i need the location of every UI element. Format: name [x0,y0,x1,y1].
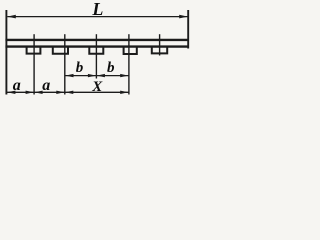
svg-text:L: L [91,0,103,19]
arrowhead L right [179,15,188,19]
arrowhead b1 left [65,74,73,77]
arrowhead L left [7,15,16,19]
arrowhead a1 right [26,91,34,94]
svg-text:a: a [13,77,21,94]
bar top edge [5,39,188,41]
centerline tooth 4 [128,34,130,94]
bar bottom edge [5,45,188,47]
extension line right [187,10,189,49]
tooth 1 [27,47,41,54]
tooth 4 [124,47,137,55]
arrowhead X right [120,91,128,94]
dimension line b row [65,75,129,77]
svg-text:X: X [91,79,103,95]
arrowhead X left [65,91,73,94]
svg-text:b: b [107,60,115,76]
centerline tooth 2 [64,34,66,94]
arrowhead b2 right [120,74,128,77]
centerline tooth 3 [95,34,97,78]
dimension line L [7,16,187,18]
tooth 2 [53,47,68,54]
centerline tooth 5 [159,34,161,55]
arrowhead b1 right [88,74,96,77]
arrowhead a2 left [34,91,42,94]
centerline tooth 1 [33,34,35,94]
svg-text:a: a [42,77,50,94]
tooth 3 [89,47,103,54]
dimension line a a X row [7,91,129,93]
arrowhead a1 left [7,91,15,94]
arrowhead a2 right [56,91,64,94]
arrowhead b2 left [97,74,105,77]
extension line left [5,10,7,95]
tooth 5 [152,47,167,54]
svg-text:b: b [76,60,84,76]
